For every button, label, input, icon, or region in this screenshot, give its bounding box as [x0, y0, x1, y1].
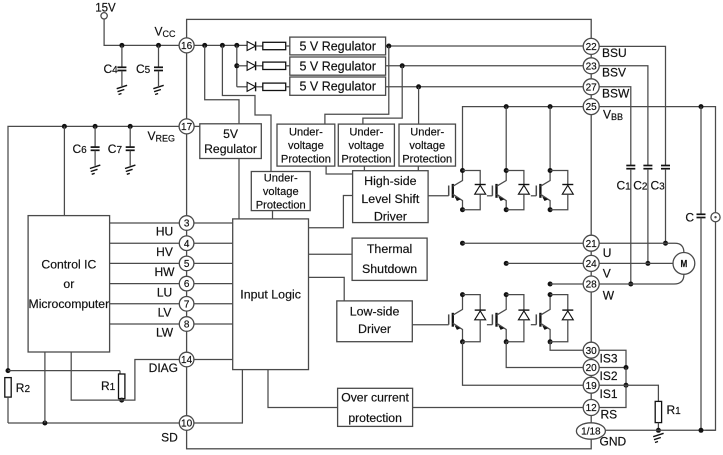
capacitor C6 — [91, 146, 100, 148]
wire D3 to R — [256, 86, 262, 88]
node C1 W — [628, 282, 633, 287]
wire U phase — [463, 242, 584, 244]
node row2 feed — [234, 63, 239, 68]
wire Q4 low-side U gate lead — [412, 324, 448, 326]
svg-text:Under-: Under- — [410, 127, 444, 139]
svg-text:25: 25 — [586, 102, 598, 113]
svg-text:R1: R1 — [101, 379, 116, 393]
wire UV3 feed — [418, 87, 420, 124]
transistor Q3 high-side W collector — [540, 171, 550, 187]
svg-text:12: 12 — [586, 403, 598, 414]
transistor Q5 low-side V collector — [497, 295, 507, 316]
svg-text:or: or — [63, 277, 74, 291]
node Q6 low-side W collector — [548, 292, 553, 297]
svg-text:5 V Regulator: 5 V Regulator — [299, 80, 375, 94]
wire R to regulator 1 — [286, 45, 290, 47]
svg-text:voltage: voltage — [288, 140, 324, 152]
svg-text:Over current: Over current — [341, 390, 409, 404]
transistor Q6 low-side W gate bar — [535, 314, 537, 324]
low-side driver box — [337, 301, 413, 342]
svg-text:28: 28 — [586, 280, 598, 291]
node IS2 join — [624, 365, 629, 370]
wire LU — [110, 283, 180, 285]
wire UV1 feed — [325, 46, 389, 124]
diode D6 freewheel — [562, 309, 573, 311]
transistor Q5 low-side V emitter arrow — [498, 325, 504, 330]
transistor Q1 high-side U emitter arrow — [455, 196, 461, 201]
thermal shutdown box — [352, 238, 427, 280]
pin 5 HW — [179, 256, 194, 271]
svg-text:Microcomputer: Microcomputer — [29, 297, 110, 311]
svg-text:C: C — [685, 210, 694, 224]
wire HV — [110, 242, 180, 244]
resistor R2 — [5, 378, 11, 398]
wire UV3 out — [417, 166, 419, 171]
capacitor C1 — [626, 165, 635, 167]
wire C3 to U — [665, 169, 667, 243]
wire C5 to ground — [158, 71, 160, 86]
wire VBB to rail2 — [505, 107, 507, 171]
wire IS1 ext — [599, 384, 626, 386]
junction C6 top — [93, 124, 98, 129]
svg-text:17: 17 — [181, 122, 193, 133]
control IC box — [28, 216, 110, 352]
wire Q5 low-side V gate lead — [487, 324, 493, 326]
wire U to motor — [599, 243, 684, 253]
transistor Q6 low-side W emitter — [540, 323, 550, 342]
svg-text:Thermal: Thermal — [367, 242, 412, 256]
transistor Q4 low-side U collector — [453, 295, 463, 316]
high-side level shift driver box — [353, 171, 429, 223]
wire HU — [110, 222, 180, 224]
supply terminal — [711, 213, 720, 222]
resistor R1 shunt — [655, 401, 661, 422]
pin 8 LW — [179, 317, 194, 332]
svg-text:LU: LU — [157, 285, 172, 299]
wire IS3 ext — [599, 350, 626, 367]
ground at R1 — [653, 433, 663, 436]
node C3 U — [663, 241, 668, 246]
diode D4 freewheel — [475, 309, 486, 311]
wire IS join down — [625, 368, 627, 386]
node VCC feed A — [202, 43, 207, 48]
transistor Q2 high-side V body — [495, 184, 497, 198]
wire VBB ext — [599, 107, 715, 213]
5V regulator box row1 — [290, 37, 386, 55]
node W phase — [548, 282, 553, 287]
node Q5 low-side V emitter — [504, 339, 509, 344]
wire R1 to GND rail — [657, 423, 659, 431]
pin 28 W — [583, 276, 599, 292]
capacitor C bulk — [697, 213, 706, 215]
svg-text:4: 4 — [184, 239, 190, 250]
wire input logic to over current — [268, 370, 338, 408]
capacitor C4 — [117, 66, 126, 68]
wire BSV ext — [599, 66, 648, 165]
node UV2 tap — [400, 63, 405, 68]
wire LW — [110, 323, 180, 325]
svg-text:Under-: Under- — [349, 127, 383, 139]
diode D3 — [247, 82, 256, 91]
svg-text:SD: SD — [161, 430, 178, 444]
node Q1 high-side U collector — [460, 168, 465, 173]
wire V phase — [506, 262, 583, 264]
wire D2 freewheel branch — [506, 171, 524, 185]
svg-text:14: 14 — [181, 355, 193, 366]
wire D5 freewheel branch bottom — [506, 320, 524, 342]
pin 7 LV — [179, 297, 194, 312]
pin 12 RS — [583, 400, 599, 416]
ground under C5 — [153, 85, 163, 88]
wire IS to RS — [599, 385, 626, 407]
wire R to regulator 3 — [286, 86, 290, 88]
pin 14 DIAG — [179, 352, 194, 367]
wire C4 to ground — [121, 71, 123, 86]
wire GND rail — [605, 429, 715, 431]
svg-text:HV: HV — [156, 245, 173, 259]
IC package outline — [187, 19, 592, 448]
wire R to regulator 2 — [286, 65, 290, 67]
wire C6 lead — [94, 126, 96, 146]
svg-text:C1: C1 — [617, 179, 632, 193]
pin 22 BSU — [583, 38, 599, 54]
node Q2 high-side V collector — [504, 168, 509, 173]
node Q4 low-side U collector — [460, 292, 465, 297]
transistor Q3 high-side W emitter arrow — [542, 196, 548, 201]
wire pin to input logic — [194, 323, 233, 325]
svg-text:6: 6 — [184, 279, 190, 290]
wire VREG rail — [8, 126, 179, 370]
node Q4 low-side U emitter — [460, 339, 465, 344]
pin 10 SD — [179, 416, 194, 431]
wire D2 freewheel branch bottom — [506, 194, 524, 210]
svg-text:C7: C7 — [108, 142, 123, 156]
transistor Q5 low-side V body — [495, 313, 497, 327]
wire LV — [110, 303, 180, 305]
wire pin16 to diode row — [194, 44, 247, 46]
node V phase — [504, 261, 509, 266]
UV protection box 3 — [399, 124, 456, 166]
transistor Q4 low-side U emitter — [453, 323, 463, 342]
transistor Q4 low-side U emitter arrow — [455, 325, 461, 330]
svg-text:Input Logic: Input Logic — [240, 288, 301, 302]
svg-text:8: 8 — [184, 320, 190, 331]
wire row3 lead — [237, 86, 247, 88]
diode D1 freewheel — [475, 184, 486, 186]
svg-text:V: V — [603, 267, 611, 281]
wire D4 freewheel branch — [463, 295, 481, 311]
svg-text:5 V Regulator: 5 V Regulator — [299, 60, 375, 74]
wire Q1 high-side U gate lead — [428, 195, 449, 197]
node control IC to SD — [42, 421, 47, 426]
svg-text:voltage: voltage — [409, 140, 445, 152]
pin 3 HU — [179, 216, 194, 231]
wire VBB to rail3 — [549, 107, 551, 171]
svg-text:3: 3 — [184, 219, 190, 230]
pin 4 HV — [179, 236, 194, 251]
node VREG to control IC — [62, 124, 67, 129]
svg-text:Level Shift: Level Shift — [361, 192, 419, 206]
wire C7 lead — [129, 126, 131, 146]
wire UV2 out — [363, 166, 365, 171]
wire R1 top lead — [119, 371, 121, 374]
node IS1 join — [624, 383, 629, 388]
svg-text:R2: R2 — [16, 381, 31, 395]
junction C5 top — [156, 43, 161, 48]
wire W to motor — [599, 275, 684, 285]
diode D3 freewheel — [562, 184, 573, 186]
svg-text:M: M — [681, 258, 688, 270]
wire R1 bottom lead — [121, 399, 123, 401]
svg-text:voltage: voltage — [348, 140, 384, 152]
svg-text:C2: C2 — [633, 179, 648, 193]
transistor Q1 high-side U emitter — [453, 194, 463, 210]
wire BSU row — [386, 45, 584, 47]
node VCC feed B — [220, 43, 225, 48]
wire Q3 high-side W gate lead — [531, 195, 537, 197]
node VBB rail2 — [504, 104, 509, 109]
svg-text:DIAG: DIAG — [149, 361, 178, 375]
transistor Q2 high-side V collector — [497, 171, 507, 187]
wire C5 lead — [158, 45, 160, 67]
wire VREG to control IC — [63, 126, 65, 215]
svg-text:5V: 5V — [223, 127, 239, 141]
node Q3 high-side W emitter — [548, 207, 553, 212]
wire VBB rail — [463, 107, 584, 171]
resistor row 2 — [263, 62, 286, 69]
wire C7 to ground — [129, 151, 131, 166]
wire diode ladder — [236, 45, 238, 86]
node Q5 low-side V collector — [504, 292, 509, 297]
wire Q6 low-side W gate lead — [531, 324, 537, 326]
wire R1 bottom to DIAG — [122, 360, 180, 401]
wire D1 freewheel branch — [463, 171, 481, 185]
capacitor C2 — [643, 165, 652, 167]
wire BSW ext — [599, 87, 631, 165]
transistor Q6 low-side W emitter arrow — [542, 325, 548, 330]
svg-text:24: 24 — [586, 259, 598, 270]
svg-text:Driver: Driver — [374, 209, 407, 223]
pin 25 VBB — [583, 99, 599, 115]
capacitor C7 — [126, 146, 135, 148]
wire pin to input logic — [194, 222, 233, 224]
wire UV1 out — [326, 166, 353, 174]
node R1 GND — [656, 428, 661, 433]
wire VCC to 5V regulator — [205, 45, 239, 123]
svg-text:22: 22 — [586, 42, 598, 53]
svg-text:Protection: Protection — [402, 154, 452, 166]
wire R1 bottom to control IC — [71, 352, 122, 400]
svg-text:Shutdown: Shutdown — [362, 262, 417, 276]
svg-text:LV: LV — [158, 306, 172, 320]
wire W phase — [550, 283, 583, 285]
node R1 bottom — [119, 398, 124, 403]
wire D1 freewheel branch bottom — [463, 194, 481, 210]
svg-text:Driver: Driver — [358, 322, 391, 336]
wire D5 freewheel branch — [506, 295, 524, 311]
wire IS1 — [463, 342, 584, 385]
wire input logic to high-side driver — [309, 196, 353, 228]
pin 21 U — [583, 235, 599, 251]
wire pin to input logic — [194, 283, 233, 285]
svg-text:Protection: Protection — [341, 154, 391, 166]
junction C7 top — [128, 124, 133, 129]
5V regulator box row3 — [290, 77, 386, 95]
svg-text:5: 5 — [184, 259, 190, 270]
wire 15V to VCC line — [104, 19, 179, 45]
wire D3 freewheel branch bottom — [550, 194, 568, 210]
svg-text:23: 23 — [586, 61, 598, 72]
wire pin to input logic — [194, 303, 233, 305]
wire R2 top to R1 line — [8, 370, 120, 372]
svg-text:IS1: IS1 — [600, 387, 618, 401]
over current protection box — [338, 388, 413, 426]
diode D2 — [247, 61, 256, 70]
svg-text:C5: C5 — [136, 62, 151, 76]
wire IS3 — [550, 342, 583, 350]
ground under C6 — [90, 165, 100, 168]
node Q6 low-side W emitter — [548, 339, 553, 344]
svg-text:GND: GND — [600, 435, 627, 449]
node U phase — [460, 241, 465, 246]
pin 1/18 GND — [576, 423, 605, 439]
wire SD rail — [8, 422, 179, 424]
svg-text:19: 19 — [586, 381, 598, 392]
transistor Q1 high-side U body — [452, 184, 454, 198]
diode D1 — [247, 42, 256, 51]
svg-text:20: 20 — [586, 363, 598, 374]
transistor Q2 high-side V emitter — [497, 194, 507, 210]
wire D6 freewheel branch bottom — [550, 320, 568, 342]
svg-text:IS2: IS2 — [600, 369, 618, 383]
svg-text:BSV: BSV — [602, 66, 626, 80]
transistor Q6 low-side W collector — [540, 295, 550, 316]
UV protection box 1 — [277, 124, 335, 166]
svg-text:HU: HU — [156, 225, 173, 239]
svg-text:R1: R1 — [667, 403, 682, 417]
15V terminal — [101, 13, 107, 19]
wire C1 to W — [630, 169, 632, 284]
transistor Q2 high-side V gate bar — [491, 186, 493, 196]
svg-text:Protection: Protection — [281, 154, 331, 166]
svg-text:10: 10 — [181, 419, 193, 430]
wire UV2 feed — [363, 66, 402, 124]
wire IS to R1 — [626, 385, 658, 401]
svg-text:Low-side: Low-side — [350, 305, 400, 319]
svg-text:BSW: BSW — [602, 86, 630, 100]
node bulk cap GND — [699, 428, 704, 433]
svg-text:21: 21 — [586, 239, 598, 250]
node bulk cap top — [699, 104, 704, 109]
wire BSV row — [386, 65, 584, 67]
wire bulk cap top lead — [700, 107, 702, 214]
UV protection box 2 — [338, 124, 394, 166]
svg-text:protection: protection — [348, 411, 402, 425]
wire D6 freewheel branch — [550, 295, 568, 311]
svg-text:Under-: Under- — [289, 127, 323, 139]
svg-text:5 V Regulator: 5 V Regulator — [299, 39, 375, 53]
wire V to motor — [599, 262, 673, 264]
ground under C4 — [117, 85, 127, 88]
svg-text:C4: C4 — [104, 62, 119, 76]
resistor row 3 — [263, 83, 286, 90]
node VBB rail3 — [548, 104, 553, 109]
node Q3 high-side W collector — [548, 168, 553, 173]
input logic box — [233, 219, 309, 370]
wire HW — [110, 262, 180, 264]
svg-text:C6: C6 — [73, 142, 88, 156]
svg-text:HW: HW — [155, 265, 176, 279]
ground under C7 — [125, 165, 135, 168]
wire C2 to V — [647, 169, 649, 263]
capacitor C5 — [154, 66, 163, 68]
node R2 top — [6, 368, 11, 373]
capacitor C3 — [661, 165, 670, 167]
wire pin14 to input logic — [194, 359, 233, 361]
svg-text:Regulator: Regulator — [204, 142, 257, 156]
transistor Q5 low-side V gate bar — [491, 314, 493, 324]
transistor Q1 high-side U gate bar — [448, 186, 450, 196]
wire D3 freewheel branch — [550, 171, 568, 185]
transistor Q1 high-side U collector — [453, 171, 463, 187]
wire terminal to GND rail — [705, 222, 715, 430]
svg-text:LW: LW — [156, 326, 174, 340]
wire pin to input logic — [194, 262, 233, 264]
wire D2 to R — [256, 65, 262, 67]
wire input logic to SD — [194, 370, 243, 423]
svg-text:30: 30 — [586, 346, 598, 357]
motor M — [673, 253, 695, 275]
wire C4 lead — [121, 45, 123, 67]
wire input logic to thermal shutdown — [309, 253, 353, 255]
pin 16 VCC — [179, 38, 194, 53]
transistor Q6 low-side W body — [539, 313, 541, 327]
wire 5V regulator to input logic — [238, 159, 240, 219]
svg-text:W: W — [603, 288, 615, 302]
transistor Q3 high-side W emitter — [540, 194, 550, 210]
node C2 V — [645, 261, 650, 266]
wire control IC pin to SD — [44, 352, 46, 423]
pin 20 IS2 — [583, 360, 599, 376]
wire pin17 to 5V regulator — [194, 125, 200, 127]
node Q2 high-side V emitter — [504, 207, 509, 212]
wire VCC to UV protection 4 — [222, 45, 271, 171]
svg-text:Control IC: Control IC — [41, 257, 96, 271]
node Q1 high-side U emitter — [460, 207, 465, 212]
wire D1 to R — [256, 45, 262, 47]
wire BSW row — [386, 86, 584, 88]
5V regulator box — [200, 124, 261, 159]
svg-text:16: 16 — [181, 41, 193, 52]
svg-text:voltage: voltage — [263, 186, 299, 198]
svg-text:1/18: 1/18 — [581, 427, 601, 438]
wire over current to RS — [413, 407, 584, 409]
pin 23 BSV — [583, 58, 599, 74]
svg-text:C3: C3 — [651, 179, 666, 193]
transistor Q5 low-side V emitter — [497, 323, 507, 342]
pin 6 LU — [179, 276, 194, 291]
svg-text:High-side: High-side — [364, 174, 416, 188]
transistor Q4 low-side U gate bar — [448, 314, 450, 324]
svg-text:BSU: BSU — [602, 46, 627, 60]
svg-text:Under-: Under- — [264, 172, 298, 184]
svg-text:U: U — [603, 246, 612, 260]
node UV3 tap — [416, 84, 421, 89]
wire C6 to ground — [94, 151, 96, 166]
svg-text:IS3: IS3 — [600, 352, 618, 366]
wire UV4 to input logic — [272, 211, 274, 219]
wire pin to input logic — [194, 242, 233, 244]
